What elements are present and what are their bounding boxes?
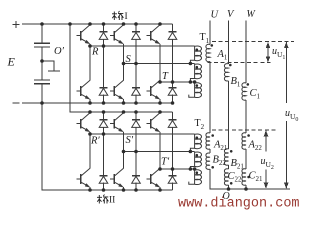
svg-text:T′: T′ bbox=[161, 157, 170, 168]
transistor V4' (bridge II lower leg R') bbox=[76, 134, 90, 190]
diode VD4' (bridge II lower leg R') bbox=[99, 134, 108, 190]
polarity dots windings B21 B22 bbox=[211, 150, 232, 169]
transistor V3' (bridge II upper leg T') bbox=[146, 112, 160, 169]
junctions on bridge II bottom rail bbox=[88, 188, 162, 192]
polarity dots T1 primary windings bbox=[196, 48, 199, 86]
arrow u_U0 dimension bbox=[284, 42, 289, 189]
junctions on negative DC bus bbox=[40, 101, 174, 105]
svg-text:II: II bbox=[109, 196, 115, 206]
diode VD5' (bridge II lower leg S') bbox=[132, 152, 141, 191]
transistor V2 (bridge I upper leg S) bbox=[110, 24, 124, 64]
diode VD6 (bridge I lower leg T) bbox=[168, 82, 177, 103]
label bridge I (Chinese qiao + I) bbox=[112, 11, 123, 20]
diode VD4 (bridge I lower leg R) bbox=[99, 46, 108, 103]
junctions on node S' bbox=[122, 150, 193, 154]
junction node O' capacitor midpoint bbox=[40, 59, 44, 63]
node - (negative terminal of E) bbox=[13, 102, 20, 104]
svg-text:uU1: uU1 bbox=[272, 46, 285, 61]
winding A1 (T1 secondary, phase U) bbox=[206, 44, 210, 61]
capacitor C lower bbox=[41, 84, 43, 103]
dashed reference line bottom of A1 bbox=[208, 61, 271, 63]
svg-text:I: I bbox=[125, 12, 128, 22]
diode VD3' (bridge II upper leg T') bbox=[168, 112, 177, 169]
winding C1 (T1 secondary, phase W) bbox=[242, 83, 246, 100]
polarity dots windings A1 B1 C1 bbox=[211, 44, 250, 86]
svg-text:S: S bbox=[126, 54, 132, 65]
transformer T2 primary winding 3 (T'-open) bbox=[189, 169, 202, 185]
transistor V5' (bridge II lower leg S') bbox=[110, 152, 124, 191]
winding A22 (T2 secondary, phase W) bbox=[242, 133, 246, 149]
diode VD2 (bridge I upper leg S) bbox=[132, 24, 141, 64]
winding C21 (T2 secondary, phase W) bbox=[242, 169, 246, 185]
svg-text:R′: R′ bbox=[90, 136, 100, 147]
diode VD5 (bridge I lower leg S) bbox=[132, 64, 141, 104]
junctions on bridge II top rail bbox=[88, 110, 162, 114]
wire bridge II positive feed and top rail bbox=[70, 24, 173, 112]
wire bottom DC bus bbox=[22, 102, 173, 104]
svg-text:O′: O′ bbox=[54, 46, 65, 57]
svg-text:R: R bbox=[91, 47, 99, 58]
winding C22 (T2 secondary, phase V) bbox=[224, 169, 228, 185]
svg-text:E: E bbox=[7, 55, 16, 69]
svg-text:B21: B21 bbox=[231, 158, 245, 171]
transistor V1 (bridge I upper leg R) bbox=[76, 24, 90, 46]
wire output column U bbox=[210, 21, 290, 190]
transistor V6 (bridge I lower leg T) bbox=[146, 80, 160, 103]
svg-text:A21: A21 bbox=[213, 140, 228, 153]
transformer T1 primary winding 1 (R-S) bbox=[190, 46, 201, 64]
diode VD6' (bridge II lower leg T') bbox=[168, 169, 177, 190]
dashed reference line top of A1 bbox=[212, 40, 294, 42]
junctions on neutral line O bbox=[227, 187, 248, 191]
label bridge II (Chinese qiao + II) bbox=[97, 195, 108, 204]
capacitor C upper bbox=[41, 24, 43, 80]
transistor V6' (bridge II lower leg T') bbox=[146, 168, 160, 190]
winding B22 (T2 secondary, phase U) bbox=[206, 153, 210, 169]
transformer T1 primary winding 3 (T-open) bbox=[189, 82, 202, 98]
svg-text:S′: S′ bbox=[126, 135, 134, 146]
wire top DC bus bbox=[22, 23, 173, 25]
wire phase T line bbox=[160, 81, 195, 83]
junctions on node S bbox=[122, 62, 193, 66]
winding B21 (T2 secondary, phase V) bbox=[224, 149, 228, 165]
svg-text:V: V bbox=[227, 9, 235, 20]
svg-text:T1: T1 bbox=[200, 32, 210, 45]
polarity dots windings C22 C21 bbox=[230, 176, 250, 185]
diode VD3 (bridge I upper leg T) bbox=[168, 24, 177, 82]
svg-text:C21: C21 bbox=[249, 171, 264, 184]
arrow u_U2 dimension bbox=[264, 130, 269, 188]
junctions on node T bbox=[158, 80, 196, 84]
transformer T1 primary winding 2 (S-T) bbox=[190, 64, 201, 83]
junctions on positive DC bus bbox=[40, 22, 162, 26]
svg-text:www.diangon.com: www.diangon.com bbox=[178, 197, 300, 212]
wire bridge II negative rail bbox=[42, 103, 173, 190]
transistor V2' (bridge II upper leg S') bbox=[110, 112, 124, 152]
svg-text:T: T bbox=[162, 71, 169, 82]
winding A21 (T2 secondary, phase U) bbox=[206, 133, 210, 149]
transistor V3 (bridge I upper leg T) bbox=[146, 24, 160, 82]
transistor V5 (bridge I lower leg S) bbox=[110, 64, 124, 104]
transistor V4 (bridge I lower leg R) bbox=[76, 46, 90, 103]
junctions on node R' bbox=[88, 132, 105, 136]
transistor V1' (bridge II upper leg R') bbox=[76, 112, 90, 134]
wire output column V bbox=[228, 21, 230, 190]
arrow u_U1 dimension bbox=[266, 42, 271, 62]
svg-text:W: W bbox=[247, 9, 257, 20]
wire phase R line bbox=[90, 45, 195, 47]
svg-text:T2: T2 bbox=[195, 118, 205, 131]
dashed reference line top of T2 secondaries bbox=[212, 129, 278, 131]
node + (positive terminal of E) bbox=[13, 21, 20, 28]
wire phase S' line bbox=[124, 151, 195, 153]
svg-text:A22: A22 bbox=[248, 140, 263, 153]
polarity dots windings A21 A22 bbox=[211, 134, 250, 137]
svg-text:U: U bbox=[211, 10, 220, 21]
diode VD2' (bridge II upper leg S') bbox=[132, 112, 141, 152]
svg-text:uU0: uU0 bbox=[285, 108, 298, 123]
diode VD1' (bridge II upper leg R') bbox=[99, 112, 108, 134]
transformer T2 primary winding 1 (R'-S') bbox=[190, 134, 201, 152]
diode VD1 (bridge I upper leg R) bbox=[99, 24, 108, 46]
polarity dots T2 primary windings bbox=[196, 136, 199, 174]
svg-text:A1: A1 bbox=[217, 49, 228, 62]
svg-text:uU2: uU2 bbox=[261, 156, 274, 171]
svg-text:C1: C1 bbox=[250, 88, 261, 101]
transformer T2 primary winding 2 (S'-T') bbox=[190, 152, 201, 170]
svg-text:B1: B1 bbox=[231, 76, 241, 89]
svg-text:C22: C22 bbox=[228, 171, 243, 184]
wire phase R' line bbox=[90, 133, 195, 135]
junctions on node R bbox=[88, 44, 105, 48]
wire phase T' line bbox=[160, 168, 195, 170]
node O' tap bbox=[42, 61, 60, 71]
winding B1 (T1 secondary, phase V) bbox=[224, 64, 228, 81]
junctions on node T' bbox=[158, 167, 196, 171]
wire output column W bbox=[245, 21, 247, 190]
wire phase S line bbox=[124, 63, 195, 65]
